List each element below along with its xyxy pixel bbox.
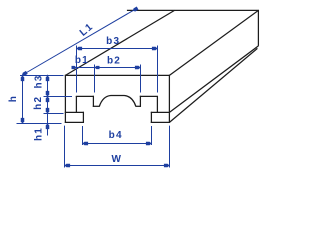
left foot bottom edge: [65, 121, 84, 123]
svg-text:L1: L1: [78, 21, 96, 38]
arrowhead b4 right: [146, 142, 152, 146]
dimension h line: [22, 75, 24, 124]
extension line b3 right: [157, 46, 159, 93]
rail right foot bottom oblique edge: [169, 48, 257, 122]
arrowhead h2 bottom: [46, 108, 50, 114]
extension line b4 left: [82, 126, 84, 145]
extension line foot top (h2/h1): [44, 113, 64, 115]
profile left edge: [64, 75, 66, 123]
left foot top edge: [65, 111, 84, 113]
svg-text:b2: b2: [107, 55, 121, 66]
arrowhead b4 left: [83, 142, 89, 146]
extension line W right: [169, 126, 171, 168]
dimension b1/b2 line: [77, 67, 141, 69]
arrowhead W left: [65, 164, 71, 168]
arrowhead h2 top: [46, 97, 50, 103]
right foot inner edge: [150, 112, 152, 123]
dimension L1 line: [22, 11, 133, 75]
svg-text:h: h: [8, 96, 19, 102]
rail rear right vertical edge: [257, 10, 259, 46]
dimension column line h3/h2/h1: [47, 75, 49, 136]
arrowhead h3 bottom: [46, 91, 50, 97]
extension line front top (L1/h): [20, 75, 64, 77]
rail top-right oblique edge: [169, 10, 258, 75]
arrowhead b2 right: [135, 66, 141, 70]
rail rear top edge: [127, 9, 259, 11]
svg-text:W: W: [111, 154, 121, 165]
arrowhead h3 top: [46, 76, 50, 82]
svg-text:h3: h3: [33, 74, 44, 88]
left block inner edge: [92, 96, 94, 107]
right foot bottom edge: [151, 121, 170, 123]
profile top edge: [65, 74, 170, 76]
rail top-left oblique edge: [65, 10, 174, 75]
right dip floor: [136, 105, 141, 107]
arrowhead W right: [164, 164, 170, 168]
extension line W left: [64, 126, 66, 168]
svg-text:h1: h1: [34, 127, 45, 141]
dimension W line: [65, 165, 170, 167]
profile right edge: [168, 75, 170, 123]
right block inner edge: [139, 96, 141, 107]
arrowhead L1 top: [133, 7, 139, 12]
right notch vertical: [156, 96, 158, 113]
left dip floor: [93, 105, 100, 107]
arrowhead b1 right / b2 left: [95, 66, 100, 69]
right block top edge: [140, 95, 158, 97]
arrowhead h bottom: [21, 118, 25, 124]
svg-text:b1: b1: [75, 55, 89, 66]
extension line block top (h3/h2): [44, 96, 73, 98]
arrowhead b3 right: [152, 47, 158, 51]
center dome: [99, 96, 136, 107]
extension line b1 right / b2 left: [94, 65, 96, 93]
dimension b3 line: [77, 48, 158, 50]
extension line b3/b1 left: [76, 46, 78, 93]
svg-text:h2: h2: [33, 96, 44, 110]
dimension b4 line: [83, 143, 152, 145]
left block top edge: [76, 95, 94, 97]
extension line b4 right: [151, 126, 153, 145]
arrowhead b3 left: [77, 47, 83, 51]
arrowhead b1 left outside: [72, 66, 77, 69]
right foot top edge: [151, 111, 170, 113]
extension line bottom (h/h1): [17, 123, 62, 125]
arrowhead h1 bottom outside: [46, 124, 50, 130]
rail right foot top oblique edge: [169, 46, 258, 113]
arrowhead h top: [21, 76, 25, 82]
arrowhead L1 bottom: [22, 71, 28, 76]
extension line b2 right: [140, 65, 142, 93]
left foot inner edge: [82, 112, 84, 123]
left notch vertical: [75, 96, 77, 113]
svg-text:b3: b3: [106, 36, 120, 47]
svg-text:b4: b4: [109, 130, 123, 141]
